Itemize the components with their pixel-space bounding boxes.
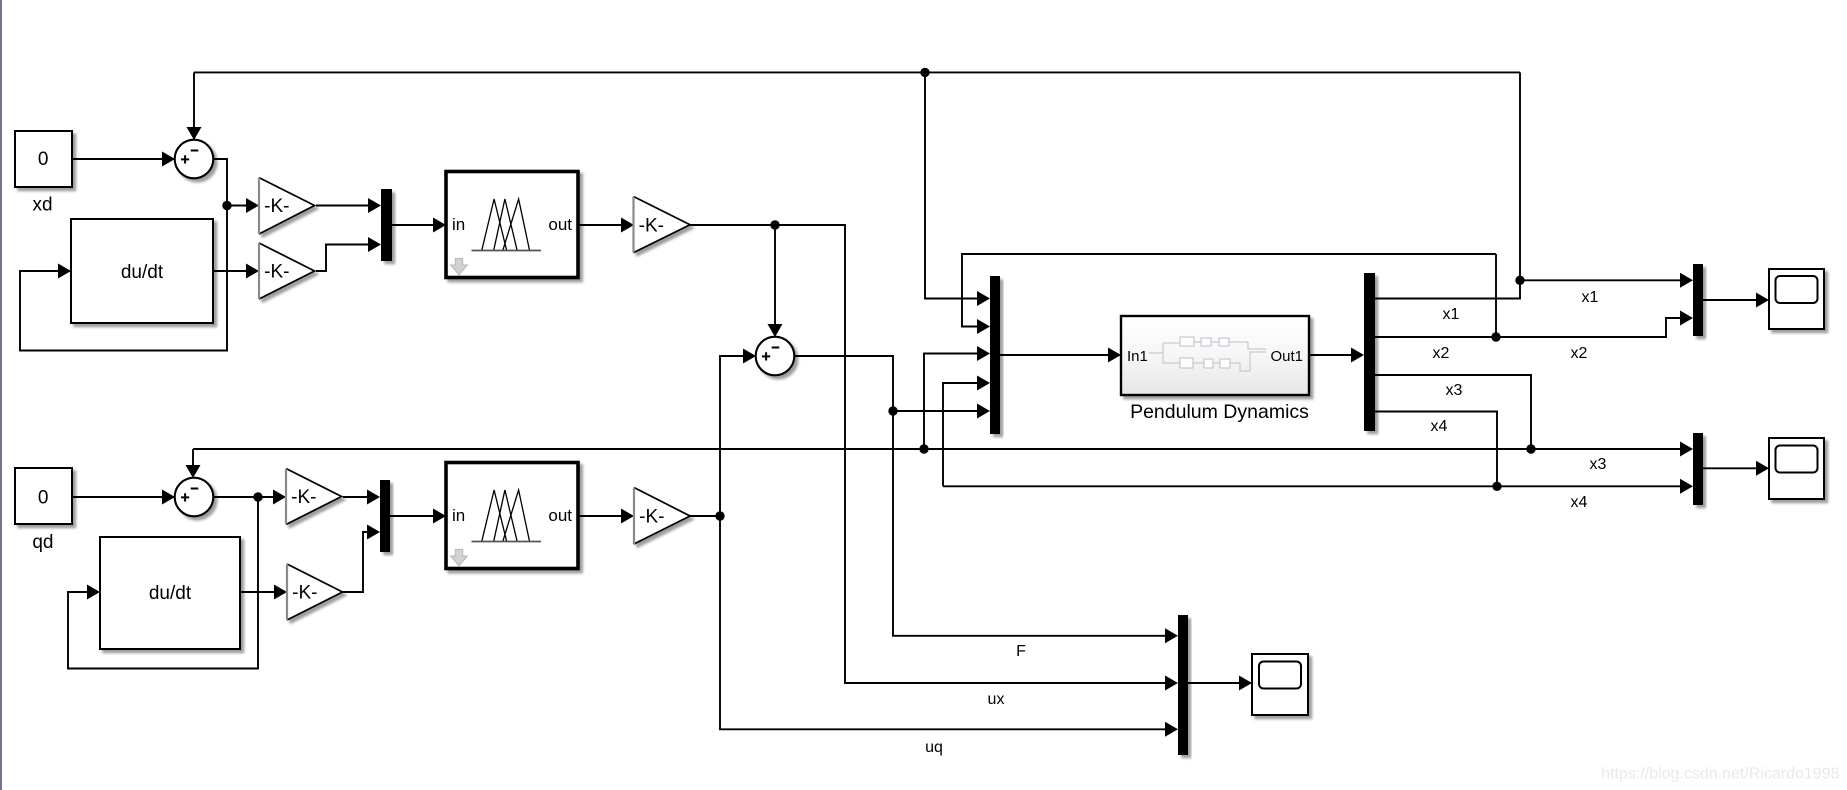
wire big mux out to pendulum In1 [1000, 354, 1109, 356]
wire sum3 top drop [192, 449, 194, 466]
wire demux x1 out [1375, 280, 1520, 298]
node sum2 out branch [888, 406, 897, 415]
svg-text:x3: x3 [1590, 456, 1607, 473]
svg-text:ux: ux [988, 691, 1005, 708]
arrow into scope mux2 port2 [1680, 479, 1693, 494]
arrow into scope mux1 port1 [1680, 273, 1693, 288]
fuzzy logic controller block 1 [446, 172, 578, 278]
arrow into big mux port3 [977, 346, 990, 361]
gain block -K- 2 [259, 243, 315, 299]
wire x3 long line y=449 from sum3 to scope mux2 port1 [193, 448, 1681, 450]
arrow into sum1 [162, 152, 175, 167]
arrow into big mux port1 [977, 291, 990, 306]
arrow into gain1 [246, 198, 259, 213]
constant block xd value 0 [15, 131, 72, 187]
mux block big mux 5 inputs [990, 276, 1000, 434]
wire sum1 top drop [193, 72, 195, 128]
signal label x2 right [1571, 345, 1588, 362]
fuzzy logic controller block 2 [446, 463, 578, 569]
subsystem block Pendulum Dynamics [1121, 316, 1309, 395]
sum block sum2 [756, 337, 795, 376]
svg-text:in: in [452, 215, 465, 234]
svg-text:xd: xd [32, 194, 52, 215]
arrow into scope3 [1239, 676, 1252, 691]
svg-text:x4: x4 [1571, 494, 1588, 511]
gain block -K- 5 [287, 564, 343, 620]
signal label x1 left [1443, 306, 1460, 323]
wire branch sum2 out to big mux input5 [893, 410, 978, 412]
window left edge [0, 0, 2, 790]
arrow into fuzzy2 [433, 509, 446, 524]
wire xd const to sum1 [72, 158, 163, 160]
gain block -K- 6 [634, 488, 690, 545]
signal label x2 left [1433, 345, 1450, 362]
arrow into mux2 port1 [367, 490, 380, 505]
svg-text:in: in [452, 506, 465, 525]
label Pendulum Dynamics [1130, 401, 1309, 423]
watermark [1601, 766, 1839, 783]
wire branch down to sum2 top [774, 225, 776, 325]
node gain3 out branch [770, 220, 779, 229]
mux block mux2 [380, 480, 390, 552]
signal label x3 left [1446, 382, 1463, 399]
signal label F [1016, 643, 1026, 660]
scope block scope1 [1769, 269, 1824, 329]
svg-text:out: out [548, 215, 572, 234]
wire sum2 out to F line and mux input5 [794, 356, 1166, 636]
svg-text:uq: uq [925, 739, 943, 756]
arrow down into sum2 top [768, 324, 783, 337]
node gain6 out branch [715, 511, 724, 520]
wire gain5 to mux2 port2 [343, 532, 368, 592]
svg-text:qd: qd [32, 532, 53, 553]
arrow into gain6 [621, 509, 634, 524]
wire demux x2 out to scope mux1 port2 [1375, 318, 1681, 337]
wire mux1 to fuzzy1 [392, 224, 434, 226]
arrow into gain3 [621, 218, 634, 233]
mux block mux1 [381, 189, 392, 261]
svg-text:0: 0 [38, 488, 49, 509]
arrow into gain4 [273, 490, 286, 505]
wire sum3 branch down to du/dt2 loop [68, 497, 258, 669]
gain block -K- 4 [286, 469, 342, 525]
arrow into sum2 left [743, 349, 756, 364]
wire fuzzy2 gain6 out to vertical x720 [690, 515, 720, 517]
arrow into big mux port2 [977, 319, 990, 334]
svg-text:https://blog.csdn.net/Ricardo1: https://blog.csdn.net/Ricardo1998 [1601, 766, 1839, 783]
wire sum3 out to gain4 [213, 496, 274, 498]
mux block scope mux1 [1693, 264, 1703, 336]
svg-text:Out1: Out1 [1270, 348, 1303, 365]
svg-text:x2: x2 [1571, 345, 1588, 362]
gain block -K- 1 [259, 178, 315, 234]
wire x3 feedback branch to big mux input3 [924, 354, 978, 450]
svg-text:-K-: -K- [291, 487, 316, 508]
arrowheads [58, 127, 1769, 737]
svg-text:-K-: -K- [292, 583, 317, 604]
arrow into scope mux2 port1 [1680, 442, 1693, 457]
svg-text:x4: x4 [1431, 418, 1448, 435]
arrow into pendulum In1 [1108, 348, 1121, 363]
label qd [32, 532, 53, 553]
svg-text:-K-: -K- [264, 196, 289, 217]
arrow into F mux port1 [1165, 628, 1178, 643]
node x4 joins line [1492, 482, 1501, 491]
arrow into scope2 [1756, 461, 1769, 476]
wire pendulum Out1 to demux [1309, 354, 1352, 356]
wire x4 feedback branch to big mux input4 [943, 383, 978, 486]
svg-text:F: F [1016, 643, 1026, 660]
node x2 branch [1491, 332, 1500, 341]
arrow down into sum3 top [186, 465, 201, 478]
signal label x3 right [1590, 456, 1607, 473]
arrow into F mux port3 [1165, 722, 1178, 737]
constant block qd value 0 [15, 468, 72, 524]
wire gain2 to mux1 port2 [316, 245, 369, 272]
scope block scope3 [1252, 654, 1308, 715]
signal label x4 right [1571, 494, 1588, 511]
node x3 joins line [1526, 444, 1535, 453]
svg-text:0: 0 [38, 149, 49, 170]
wire feedback right drop to x1 scope line [1519, 72, 1521, 280]
demux block 4 outputs [1364, 273, 1375, 431]
svg-text:x1: x1 [1582, 289, 1599, 306]
arrow into fuzzy1 [433, 218, 446, 233]
arrow into big mux port4 [977, 376, 990, 391]
wire x4 long line y=484.5 to scope mux2 port2 [943, 485, 1681, 487]
signal label x1 right [1582, 289, 1599, 306]
wire demux x4 out drop [1375, 412, 1497, 487]
wire x1 branch down to big mux input1 [925, 72, 978, 298]
node sum3 out branch [253, 492, 262, 501]
svg-text:x1: x1 [1443, 306, 1460, 323]
arrow down into sum1 top [187, 127, 202, 140]
signal label ux [988, 691, 1005, 708]
wire sum1 out down to du/dt loop [20, 159, 227, 351]
arrow into mux2 port2 [367, 525, 380, 540]
wire mux2 to fuzzy2 [390, 515, 434, 517]
wire qd const to sum3 [72, 496, 163, 498]
derivative block du/dt 1 [71, 219, 213, 323]
signal label x4 left [1431, 418, 1448, 435]
arrow into mux1 port1 [368, 198, 381, 213]
sum block sum3 [175, 478, 214, 517]
scope block scope2 [1769, 438, 1824, 499]
arrow into du/dt2 [87, 585, 100, 600]
arrow into scope mux1 port2 [1680, 311, 1693, 326]
arrow into gain5 [274, 585, 287, 600]
arrow into big mux port5 [977, 404, 990, 419]
wire x1 to scope mux1 port1 [1520, 279, 1681, 281]
mux block F ux uq mux [1178, 615, 1188, 755]
arrow into mux1 port2 [368, 237, 381, 252]
wire x2 branch up to feedback line [1495, 254, 1497, 337]
node top line branch [920, 68, 929, 77]
node x1 joins scope line [1515, 276, 1524, 285]
arrow into gain2 [246, 264, 259, 279]
svg-text:In1: In1 [1127, 348, 1148, 365]
mux block scope mux2 [1693, 433, 1703, 505]
node sum1 out branch [222, 201, 231, 210]
svg-text:x3: x3 [1446, 382, 1463, 399]
wire scope mux2 to scope2 [1703, 467, 1757, 469]
label xd [32, 194, 52, 215]
svg-text:out: out [548, 506, 572, 525]
wire fuzzy1 to gain3 [578, 224, 622, 226]
svg-text:x2: x2 [1433, 345, 1450, 362]
arrow into sum3 left [162, 490, 175, 505]
svg-text:-K-: -K- [264, 262, 289, 283]
wire top feedback x1 line y=70 [194, 71, 1520, 73]
node x3 line to mux3 branch [919, 444, 928, 453]
wire gain4 to mux2 port1 [343, 496, 368, 498]
arrow into du/dt1 [58, 264, 71, 279]
wire x2 feedback line y=254 to big mux input2 [962, 254, 1496, 327]
arrow into demux [1351, 348, 1364, 363]
arrow into scope1 [1756, 293, 1769, 308]
wire demux x3 out drop [1375, 375, 1531, 449]
svg-text:Pendulum Dynamics: Pendulum Dynamics [1130, 401, 1309, 423]
wire fuzzy2 to gain6 [578, 515, 622, 517]
svg-text:-K-: -K- [639, 507, 664, 528]
wire scope mux1 to scope1 [1703, 299, 1757, 301]
gain block -K- 3 [634, 197, 691, 253]
wire vertical x720 sum2 plus input and uq line [720, 356, 1166, 729]
wire sum1 branch to gain1 [227, 205, 247, 207]
wire F mux to scope3 [1188, 682, 1240, 684]
svg-text:-K-: -K- [639, 216, 664, 237]
wire gain3 out to ux drop [690, 225, 1166, 683]
svg-text:du/dt: du/dt [149, 583, 192, 604]
arrow into F mux port2 [1165, 676, 1178, 691]
wire gain1 to mux1 port1 [316, 205, 369, 207]
wire du/dt2 out to gain5 [240, 591, 275, 593]
sum block sum1 [175, 140, 214, 179]
wire du/dt1 out to gain2 [213, 270, 247, 272]
derivative block du/dt 2 [100, 537, 240, 649]
signal label uq [925, 739, 943, 756]
svg-text:du/dt: du/dt [121, 262, 164, 283]
